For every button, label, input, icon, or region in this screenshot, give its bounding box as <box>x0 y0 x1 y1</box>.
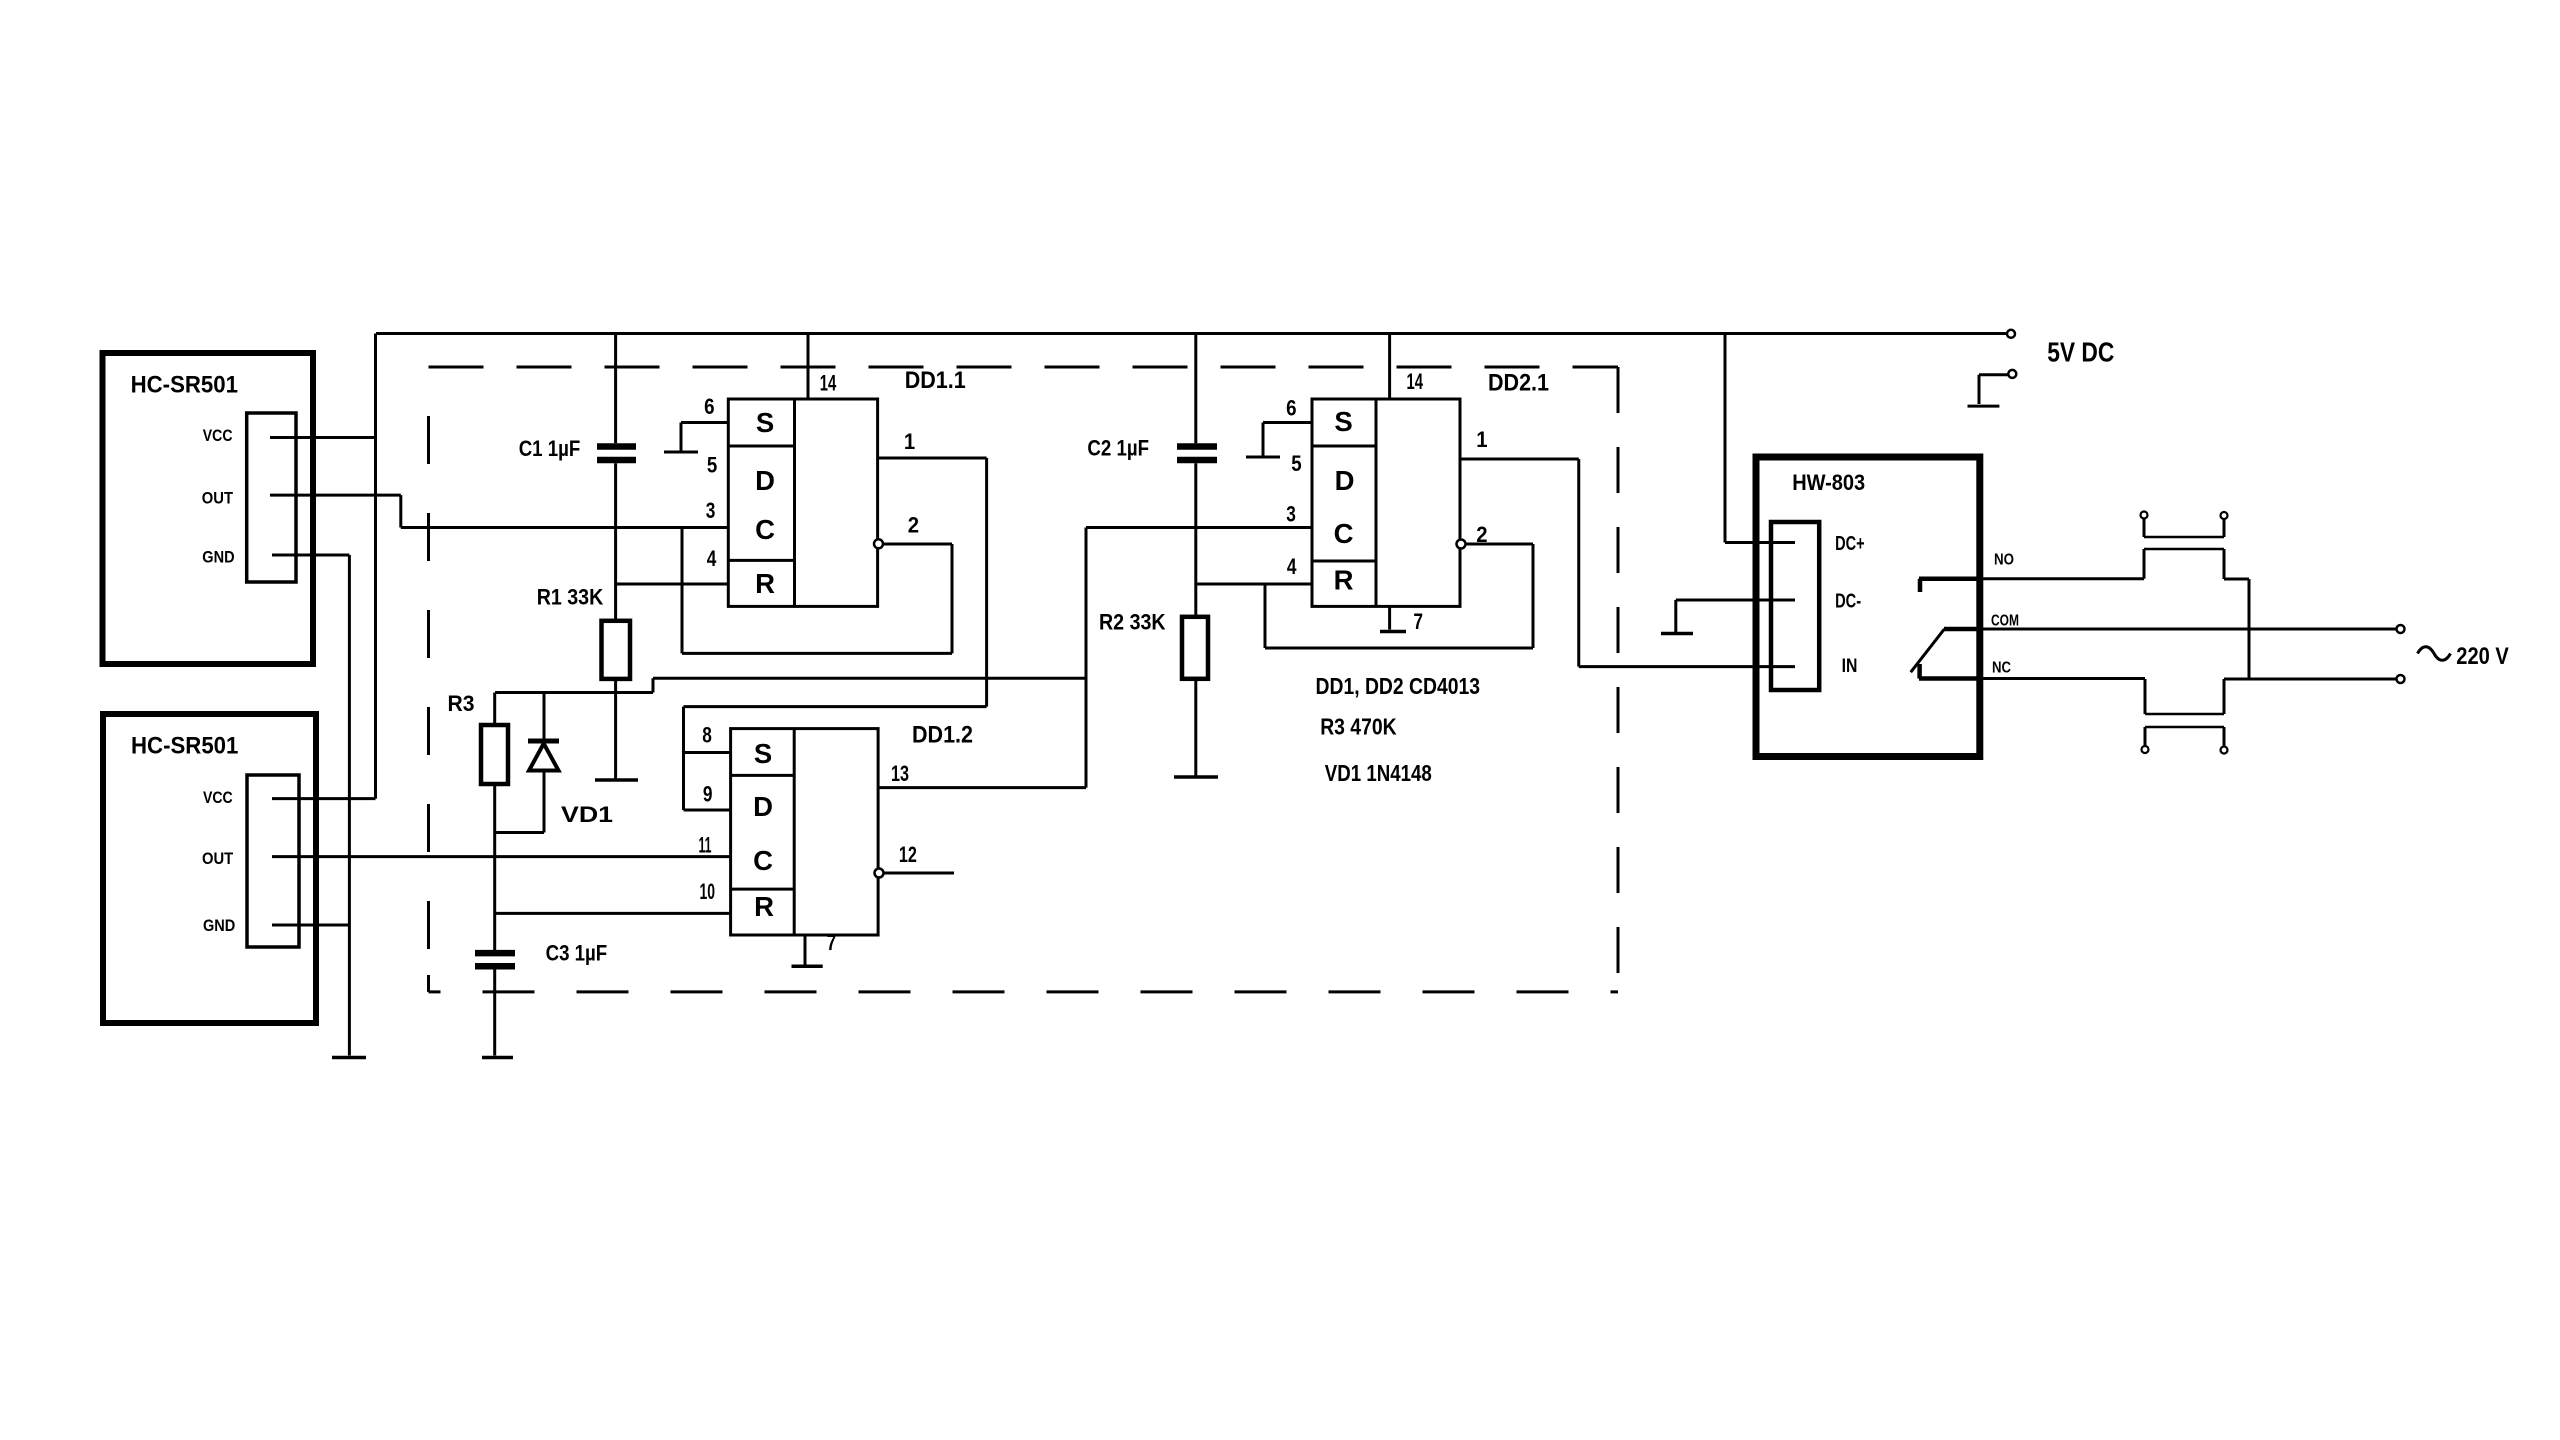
wire DC- to ground <box>1676 600 1795 632</box>
node DD1.1 inverted output pin 2 <box>682 528 952 654</box>
relay module HW-803 <box>1756 457 1980 757</box>
svg-text:IN: IN <box>1842 656 1858 677</box>
svg-text:8: 8 <box>702 723 712 748</box>
svg-text:5: 5 <box>1291 451 1301 476</box>
svg-text:VD1 1N4148: VD1 1N4148 <box>1325 760 1432 786</box>
wire DC+ to 5V rail <box>1725 334 1795 543</box>
svg-text:11: 11 <box>699 833 712 858</box>
flip-flop DD1.1 <box>728 399 877 606</box>
capacitor C3 1uF <box>475 953 515 966</box>
svg-text:4: 4 <box>1287 554 1297 579</box>
wire R2 bottom to ground <box>1194 679 1197 776</box>
wire NC to load socket 2 <box>1983 677 2145 680</box>
svg-text:C: C <box>753 845 773 876</box>
svg-text:HC-SR501: HC-SR501 <box>131 733 238 760</box>
svg-text:14: 14 <box>1407 369 1424 394</box>
dashed module boundary box <box>429 367 1619 992</box>
svg-text:12: 12 <box>899 842 917 867</box>
ground sensors <box>332 1056 366 1060</box>
svg-text:7: 7 <box>1413 609 1423 634</box>
wire DD2.1 reset pin 4 to C2/R2 node <box>1196 583 1312 586</box>
svg-text:4: 4 <box>707 546 717 571</box>
svg-text:DD1, DD2 CD4013: DD1, DD2 CD4013 <box>1316 673 1481 699</box>
terminal 5V DC return with ground <box>1968 370 2017 406</box>
svg-text:R3: R3 <box>448 691 475 716</box>
svg-text:5V DC: 5V DC <box>2047 337 2114 368</box>
svg-text:14: 14 <box>820 370 837 395</box>
capacitor C2 1uF <box>1177 334 1217 617</box>
svg-text:S: S <box>1334 406 1352 437</box>
symbol AC tilde <box>2418 647 2451 661</box>
svg-text:3: 3 <box>706 498 716 523</box>
wire NO to load socket 1 <box>1983 577 2144 580</box>
wire COM to 220V terminal <box>1983 628 2397 631</box>
svg-text:9: 9 <box>703 781 713 806</box>
flip-flop DD2.1 <box>1312 399 1460 606</box>
svg-text:2: 2 <box>908 512 919 537</box>
svg-text:VD1: VD1 <box>561 802 613 827</box>
wire sensor B2 VCC stub <box>272 797 376 800</box>
svg-text:OUT: OUT <box>202 489 234 508</box>
resistor R1 33K <box>602 621 631 679</box>
svg-text:HW-803: HW-803 <box>1792 470 1865 495</box>
wire DD2.1 Q pin 1 to relay IN <box>1460 459 1795 667</box>
wire DD1.1 power pin 14 to rail <box>807 334 810 400</box>
svg-text:NO: NO <box>1994 551 2014 568</box>
svg-text:D: D <box>1335 465 1355 496</box>
svg-text:R1 33K: R1 33K <box>537 585 604 610</box>
wire DD1.2 Q pin 13 output <box>878 786 1086 789</box>
wire DD1.1 set pin 6 hook to pin 5 <box>664 423 728 453</box>
svg-text:NC: NC <box>1992 659 2011 676</box>
ground DD1.2 pin 7 <box>792 935 823 966</box>
wire 5V supply rail <box>376 332 2011 335</box>
svg-text:10: 10 <box>700 879 716 904</box>
wire sensor B1 GND down to ground <box>272 555 349 1056</box>
svg-text:COM: COM <box>1991 613 2019 630</box>
load socket 2 bottom plug <box>2142 679 2228 754</box>
terminal 5V DC positive <box>2007 330 2015 338</box>
svg-text:C: C <box>755 514 775 545</box>
wire VCC riser from sensors to 5V rail <box>270 334 376 799</box>
wire socket 2 to 220V terminal <box>2224 678 2397 681</box>
wire DD2.1 power pin 14 to rail <box>1388 334 1391 400</box>
svg-text:OUT: OUT <box>202 849 234 868</box>
svg-text:HC-SR501: HC-SR501 <box>131 372 238 399</box>
svg-text:R: R <box>754 891 774 922</box>
wire DD2.1 set pin 6 hook to pin 5 <box>1246 423 1312 458</box>
svg-text:DD1.2: DD1.2 <box>912 723 973 749</box>
svg-text:D: D <box>753 791 773 822</box>
wire sensor B1 OUT to DD1.1 clock pin 3 <box>270 495 728 527</box>
svg-text:D: D <box>755 465 775 496</box>
relay contact NO <box>1919 579 1983 592</box>
wire R1 bottom to ground <box>614 679 617 779</box>
sensor B2 HC-SR501 (bottom) <box>103 714 316 1023</box>
svg-text:GND: GND <box>202 548 234 567</box>
load socket 1 top plug <box>2141 512 2250 580</box>
svg-text:R3 470K: R3 470K <box>1320 714 1397 740</box>
ground below C3 <box>482 1056 513 1060</box>
svg-text:C2 1µF: C2 1µF <box>1087 436 1149 461</box>
svg-text:R2 33K: R2 33K <box>1099 610 1166 635</box>
wire sensor B2 GND stub <box>272 924 349 927</box>
resistor R3 <box>481 693 508 785</box>
ground DC- <box>1661 632 1693 636</box>
svg-text:C3 1µF: C3 1µF <box>546 941 608 966</box>
terminal 220V upper <box>2397 625 2405 633</box>
svg-text:DD2.1: DD2.1 <box>1488 371 1549 397</box>
flip-flop DD1.2 <box>731 729 879 935</box>
svg-text:220 V: 220 V <box>2456 644 2509 670</box>
svg-text:1: 1 <box>1476 427 1487 452</box>
svg-text:3: 3 <box>1286 501 1296 526</box>
resistor R2 33K <box>1182 617 1208 679</box>
svg-text:7: 7 <box>827 930 837 955</box>
svg-text:6: 6 <box>704 394 714 419</box>
wire OUT1 node jog to DD2.1 clock line <box>495 528 1086 788</box>
wire DD1.2 reset pin 10 from R3 node <box>495 912 731 915</box>
svg-text:DC-: DC- <box>1835 591 1861 613</box>
svg-text:S: S <box>756 407 774 438</box>
wire DD1.1 reset pin 4 to C1/R1 node <box>616 583 729 586</box>
svg-text:GND: GND <box>203 916 235 935</box>
node DD1.2 inverted output pin 12 <box>875 869 955 878</box>
svg-text:DC+: DC+ <box>1835 533 1865 555</box>
ground below R1 <box>595 778 638 782</box>
svg-text:DD1.1: DD1.1 <box>905 368 966 394</box>
wire C3 bottom to ground <box>493 966 496 1055</box>
sensor B1 HC-SR501 (top) <box>103 353 314 664</box>
relay contact NC <box>1919 664 1983 679</box>
wire DD1.2 set pin 8 stub <box>684 751 731 754</box>
node DD2.1 inverted output pin 2 <box>1265 540 1533 649</box>
wire sensor B2 OUT to DD1.2 clock pin 11 <box>272 855 731 858</box>
terminal 220V lower <box>2397 675 2405 683</box>
svg-text:13: 13 <box>891 761 909 786</box>
svg-text:6: 6 <box>1286 396 1296 421</box>
wire DD1.2 data pin 9 stub <box>684 809 731 812</box>
svg-text:C1 1µF: C1 1µF <box>519 436 581 461</box>
wire DD2.1 clock pin 3 stub <box>1086 526 1312 529</box>
wire R3 bottom to C3 <box>495 784 544 953</box>
capacitor C1 1uF <box>597 334 636 621</box>
svg-text:1: 1 <box>904 429 915 454</box>
diode VD1 <box>528 693 559 833</box>
svg-text:C: C <box>1334 518 1354 549</box>
ground DD2.1 pin 7 <box>1380 606 1406 631</box>
svg-text:R: R <box>1334 565 1354 596</box>
svg-text:VCC: VCC <box>203 426 233 445</box>
wire socket 1 down to 220V line <box>2248 579 2251 679</box>
svg-text:S: S <box>754 738 772 769</box>
svg-text:VCC: VCC <box>203 788 233 807</box>
ground below R2 <box>1174 775 1218 779</box>
svg-text:5: 5 <box>707 452 717 477</box>
wire DD1.1 Q pin 1 to DD1.2 set and data pins <box>684 458 987 810</box>
svg-text:R: R <box>755 568 775 599</box>
relay contact COM with armature <box>1911 629 1983 672</box>
